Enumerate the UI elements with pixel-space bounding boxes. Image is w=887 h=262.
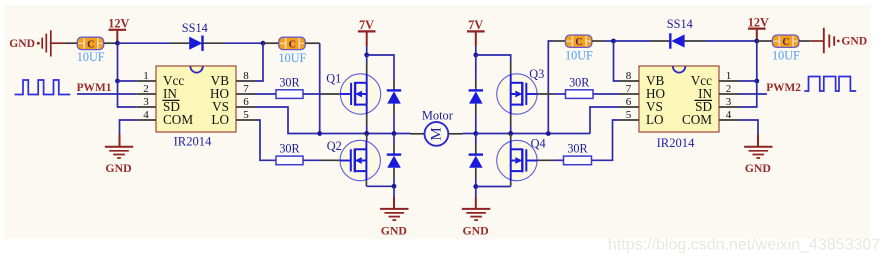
svg-text:4: 4 [726, 109, 732, 121]
wire Q2 source to ground node [366, 185, 394, 187]
pin D6 anode [475, 168, 477, 178]
node VB-left junction [261, 41, 266, 46]
power port 7V right [467, 18, 485, 46]
node diode-column midpoint right [473, 131, 478, 136]
wire HO pin7 to R1 [256, 93, 276, 95]
wire Q4 source to ground node [476, 186, 511, 188]
svg-text:Q3: Q3 [529, 67, 544, 81]
svg-text:C: C [575, 37, 582, 48]
svg-text:1: 1 [726, 70, 732, 82]
svg-text:GND: GND [841, 35, 867, 48]
wire ground stem left bridge [393, 186, 395, 197]
wire LO pin5 down to R2 [256, 120, 276, 160]
wire Q3 source to phase node right [510, 126, 512, 134]
ground GND-bridge-left [380, 209, 408, 237]
pin D3 anode [393, 104, 395, 114]
svg-text:10UF: 10UF [772, 49, 800, 63]
resistor R2 (30R) [276, 142, 303, 165]
svg-text:30R: 30R [279, 75, 300, 89]
node Vcc-right junction [754, 79, 759, 84]
ground GND-right (side earth symbol) [824, 28, 867, 53]
wire VB node to D2 [614, 40, 651, 42]
pin motor right [448, 133, 462, 135]
pin Q2 drain [366, 134, 368, 141]
wire R2 to Q2 gate [303, 159, 321, 161]
ground GND-U1 [105, 147, 133, 175]
svg-text:12V: 12V [108, 17, 129, 31]
wire C2 right down to VS net [319, 43, 321, 133]
wire 7V stem to rail [366, 46, 368, 55]
svg-text:IR2014: IR2014 [174, 134, 212, 148]
node 12V-left junction [115, 41, 120, 46]
wire phase net left (VS to motor) [320, 133, 411, 135]
diode D2 SS14 [670, 33, 684, 48]
svg-text:8: 8 [626, 70, 632, 82]
pin Q1 drain [366, 62, 368, 74]
pin U1.6 [236, 106, 256, 108]
capacitor C3 (10UF) [565, 35, 592, 48]
wire COM pin4 right to ground [739, 120, 758, 135]
wire R3 to Q3 gate [554, 93, 566, 95]
svg-text:PWM2: PWM2 [766, 82, 801, 94]
pin Q3 source [510, 114, 512, 126]
ground GND-left (side earth symbol) [9, 30, 51, 56]
pin U2.5 [619, 119, 639, 121]
pin U2.1 [719, 80, 739, 82]
wire Vcc node down to SD pin3 [118, 81, 137, 107]
svg-text:SS14: SS14 [182, 21, 208, 35]
wire D1 to VB node [225, 42, 264, 44]
pin U2.8 [619, 80, 639, 82]
svg-text:6: 6 [243, 96, 249, 108]
pin U1.2 [136, 93, 156, 95]
wire 7V node down to Q1 drain [366, 55, 368, 62]
pin D3 cathode [393, 79, 395, 90]
capacitor C2 (10UF) [279, 37, 306, 50]
svg-text:C: C [87, 39, 94, 50]
svg-text:10UF: 10UF [565, 49, 593, 63]
diode D5 [469, 90, 483, 103]
wire D2 to 12V node right [706, 40, 757, 42]
pin Q3 drain [510, 62, 512, 74]
pin Q2 source [365, 181, 367, 187]
wire midpoint to D4 [393, 134, 395, 145]
wire R1 to Q1 gate [303, 93, 321, 95]
diode D6 [469, 155, 483, 168]
pin Q2 gate [321, 159, 340, 161]
pin C1.2 [104, 42, 118, 44]
svg-text:8: 8 [243, 70, 249, 82]
pin C3.1 [552, 40, 565, 42]
svg-text:Motor: Motor [422, 108, 454, 122]
pin C3.2 [592, 40, 605, 42]
pin C4.1 [757, 40, 773, 42]
svg-text:GND: GND [9, 37, 35, 50]
pin Q4 source [510, 181, 512, 187]
wire 7V right stem to rail [475, 46, 477, 55]
svg-text:Q4: Q4 [531, 137, 546, 151]
wire C3 corner [548, 41, 552, 50]
wire pin2 to PWM2 [739, 93, 767, 95]
svg-text:M: M [428, 127, 444, 140]
pin U1.8 [236, 80, 256, 82]
ground GND-bridge-right [462, 209, 490, 237]
power port 12V right [748, 15, 769, 41]
pin C4.2 [799, 40, 811, 42]
node C3 link junction [546, 131, 551, 136]
wire PWM1 to pin2 [77, 93, 136, 95]
capacitor C1 (10UF) [77, 37, 104, 50]
wire VS right jog [590, 107, 619, 134]
svg-text:10UF: 10UF [279, 51, 307, 65]
pin U1.7 [236, 93, 256, 95]
svg-text:30R: 30R [567, 142, 588, 156]
svg-text:LO: LO [646, 112, 664, 127]
resistor R4 (30R) [564, 142, 592, 165]
wire VB node down to pin8 [256, 43, 263, 81]
node ground junction left bridge [392, 184, 397, 189]
svg-text:30R: 30R [569, 75, 590, 89]
wire Vcc node down to SD pin3 right [739, 81, 757, 107]
svg-text:6: 6 [626, 96, 632, 108]
wire C4 to GND-right [811, 40, 824, 42]
pin U1.5 [236, 119, 256, 121]
pin Q1 source [366, 114, 368, 126]
svg-text:GND: GND [105, 161, 131, 175]
node 12V-right junction [754, 39, 759, 44]
svg-text:Q2: Q2 [327, 139, 342, 153]
op-amp/driver U2 IR2014 body [639, 66, 719, 132]
wire VB node down to pin8 right [614, 41, 620, 81]
wire ground stem left IC [119, 135, 121, 148]
svg-text:COM: COM [163, 112, 193, 127]
pin D5 anode [475, 104, 477, 114]
pin U1.1 [136, 80, 156, 82]
node diode-column midpoint left [392, 131, 397, 136]
svg-text:7: 7 [243, 83, 249, 95]
wire D3 to midpoint [393, 114, 395, 134]
wire D4 to ground node [393, 178, 395, 186]
pin Q3 gate [537, 93, 554, 95]
transistor Q3 [497, 74, 537, 114]
pin U2.6 [619, 106, 639, 108]
svg-text:GND: GND [381, 223, 407, 237]
pin C2.1 [263, 42, 279, 44]
svg-text:2: 2 [726, 83, 732, 95]
waveform PWM2 pulse train [804, 77, 856, 92]
pin Q1 gate [321, 93, 340, 95]
svg-text:3: 3 [143, 96, 149, 108]
wire R4 to Q4 gate [554, 159, 564, 161]
wire ground stem right IC [757, 135, 759, 148]
pin motor left [411, 133, 425, 135]
pin U2.2 [719, 93, 739, 95]
wire 7V node to Q3 drain column [476, 55, 511, 62]
pin U2.4 [719, 119, 739, 121]
svg-text:10UF: 10UF [77, 50, 105, 64]
wire ground stem right bridge [475, 187, 477, 198]
svg-text:Q1: Q1 [326, 71, 341, 85]
pin U1.4 [136, 119, 156, 121]
pin D2 anode [685, 40, 706, 42]
transistor Q2 [340, 140, 380, 180]
diode D1 SS14 [189, 36, 202, 51]
wire LO pin5 right down to R4 [592, 120, 620, 160]
pin Q4 drain [510, 134, 512, 141]
svg-text:LO: LO [211, 112, 229, 127]
svg-text:2: 2 [143, 83, 149, 95]
svg-text:IR2014: IR2014 [657, 136, 695, 150]
svg-text:COM: COM [682, 112, 712, 127]
node ground junction right bridge [473, 184, 478, 189]
svg-text:5: 5 [626, 109, 632, 121]
svg-text:PWM1: PWM1 [77, 82, 112, 94]
op-amp/driver U1 IR2014 body [156, 66, 236, 132]
power port 7V left [358, 18, 376, 46]
wire midpoint to D6 [475, 134, 477, 145]
wire 7V node down diode column [475, 55, 477, 79]
svg-text:7V: 7V [359, 18, 374, 32]
svg-text:5: 5 [243, 109, 249, 121]
wire Vcc node to pin1 right [739, 80, 757, 82]
wire C3 link down [547, 50, 549, 134]
pin C2.2 [305, 42, 320, 44]
pin U1.3 [136, 106, 156, 108]
svg-text:3: 3 [726, 96, 732, 108]
wire 12V rail down to Vcc pin1 [117, 43, 119, 81]
svg-text:12V: 12V [748, 15, 769, 29]
node Q1/Q2 midpoint [364, 131, 369, 136]
wire Vcc node to pin1 [118, 80, 137, 82]
wire D6 to ground node right [475, 178, 477, 187]
pin D5 cathode [475, 79, 477, 90]
wire GND-left to C1 [51, 42, 64, 44]
pin D4 anode [393, 168, 395, 178]
svg-text:30R: 30R [279, 142, 300, 156]
pin D2 cathode [651, 40, 670, 42]
pin Q4 gate [537, 159, 554, 161]
wire 7V node to diode column [367, 55, 394, 79]
wire COM pin4 to ground [120, 120, 137, 135]
svg-text:SS14: SS14 [667, 17, 693, 31]
ground GND-U2 [744, 147, 772, 175]
transistor Q4 [497, 140, 537, 180]
pin D4 cathode [393, 144, 395, 155]
wire phase net right [476, 133, 590, 135]
diode D4 [387, 155, 401, 168]
svg-text:C: C [289, 39, 296, 50]
pin C1.1 [64, 42, 77, 44]
diode D3 [387, 90, 401, 103]
resistor R1 (30R) [276, 75, 303, 98]
node C2/VS junction [317, 131, 322, 136]
svg-text:7: 7 [626, 83, 632, 95]
power port 12V left [108, 17, 129, 44]
node VB-right junction [611, 39, 616, 44]
wire D5 to midpoint right [475, 114, 477, 134]
svg-text:7V: 7V [468, 18, 483, 32]
wire Q1 source to phase node [366, 126, 368, 134]
svg-text:https://blog.csdn.net/weixin_4: https://blog.csdn.net/weixin_43853307 [608, 236, 880, 253]
resistor R3 (30R) [566, 75, 594, 98]
node Q3/Q4 midpoint [508, 131, 513, 136]
node 7V-right junction [473, 53, 478, 58]
svg-text:4: 4 [143, 109, 149, 121]
svg-text:C: C [782, 37, 789, 48]
wire VS pin6 jog down to phase node [256, 107, 320, 134]
wire 12V right rail down to Vcc pin1 [756, 41, 758, 81]
wire motor to right bridge [463, 133, 476, 135]
motor M1 [425, 122, 449, 146]
pin D1 cathode [204, 42, 225, 44]
pin D1 anode [170, 42, 189, 44]
svg-text:GND: GND [462, 223, 488, 237]
capacitor C4 (10UF) [772, 35, 799, 48]
waveform PWM1 pulse train [15, 80, 71, 95]
svg-text:1: 1 [143, 70, 149, 82]
svg-text:GND: GND [745, 161, 771, 175]
pin U2.7 [619, 93, 639, 95]
pin D6 cathode [475, 144, 477, 155]
node 7V-left junction [364, 53, 369, 58]
wire C3 to VB node right [605, 40, 614, 42]
wire HO pin7 right to R3 [593, 93, 619, 95]
pin U2.3 [719, 106, 739, 108]
node Vcc-left junction [115, 79, 120, 84]
transistor Q1 [340, 74, 380, 114]
wire 12V node to D1 [118, 42, 171, 44]
